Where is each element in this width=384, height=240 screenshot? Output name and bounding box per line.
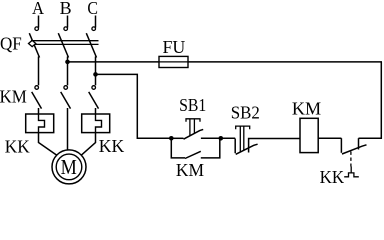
- wire KM to KK heater C: [95, 108, 97, 115]
- contactor KM main terminal B: [64, 86, 68, 90]
- contactor KM aux contact branch left: [171, 138, 185, 158]
- svg-text:KM: KM: [0, 86, 27, 106]
- terminal circle QF pole A: [35, 27, 39, 31]
- contactor KM main terminal C: [92, 86, 96, 90]
- contactor KM aux blade: [185, 151, 201, 158]
- junction dot phase B to FU: [65, 60, 70, 65]
- svg-text:SB1: SB1: [179, 95, 206, 115]
- button SB2 NO blade: [236, 144, 258, 154]
- thermal relay KK heater C box: [82, 114, 110, 133]
- wire phase C to control circuit: [96, 74, 172, 138]
- thermal relay KK heater A box: [26, 114, 54, 133]
- junction dot phase C to control: [93, 72, 98, 77]
- breaker QF blade pole B: [58, 33, 68, 57]
- motor M inner circle: [56, 154, 82, 180]
- thermal relay KK contact dashed actuator link: [350, 152, 352, 167]
- junction dot SB1 right: [219, 136, 224, 141]
- svg-text:C: C: [87, 0, 98, 18]
- thermal relay KK heater A element: [39, 114, 45, 133]
- contactor KM main blade B: [61, 92, 71, 109]
- thermal relay KK actuator element: [344, 167, 359, 177]
- terminal circle QF pole B: [64, 27, 68, 31]
- button SB2 left terminal: [234, 139, 236, 154]
- junction dot SB1 left: [169, 136, 174, 141]
- button SB1 NC blade: [184, 129, 204, 139]
- breaker QF handle diamond: [29, 40, 36, 46]
- contactor KM main blade A: [32, 92, 42, 109]
- svg-text:SB2: SB2: [231, 102, 260, 122]
- svg-text:KM: KM: [292, 99, 321, 119]
- contactor KM main blade C: [89, 92, 99, 109]
- contactor KM main terminal A: [35, 86, 39, 90]
- wire right rail vertical: [359, 62, 382, 138]
- svg-text:B: B: [60, 0, 72, 18]
- wire fuse FU to right rail: [188, 61, 382, 63]
- wire heater A to motor: [39, 133, 58, 156]
- thermal relay KK contact left terminal: [340, 138, 342, 153]
- button SB2 right terminal: [249, 139, 301, 153]
- svg-text:KK: KK: [5, 137, 30, 157]
- motor M outer circle: [52, 150, 86, 184]
- terminal circle QF pole C: [92, 27, 96, 31]
- contactor KM coil: [300, 118, 318, 152]
- svg-text:KK: KK: [99, 136, 125, 156]
- wire KM to motor phase B: [67, 108, 69, 150]
- wire phase C incoming lead: [95, 16, 97, 28]
- button SB2 plunger: [236, 126, 250, 152]
- svg-text:KK: KK: [320, 167, 345, 185]
- thermal relay KK contact right terminal: [358, 138, 360, 149]
- thermal relay KK contact blade: [342, 145, 367, 154]
- button SB1 plunger: [186, 119, 200, 136]
- fuse FU body: [159, 56, 188, 67]
- wire SB1 right: [201, 137, 235, 139]
- breaker QF blade pole A: [29, 33, 39, 57]
- wire phase C QF to KM: [95, 57, 97, 86]
- wire KM to KK heater A: [38, 108, 40, 115]
- wire KM coil to KK contact: [318, 137, 341, 139]
- wire phase A QF to KM: [38, 57, 40, 86]
- svg-text:A: A: [32, 0, 44, 18]
- thermal relay KK heater C element: [96, 114, 102, 133]
- wire phase A incoming lead: [38, 16, 40, 28]
- svg-text:QF: QF: [0, 34, 22, 54]
- svg-text:FU: FU: [163, 37, 186, 57]
- wire phase B incoming lead: [67, 16, 69, 28]
- wire phase B QF to KM: [67, 57, 69, 86]
- wire heater C to motor: [81, 133, 96, 156]
- breaker QF linkage bar: [31, 40, 99, 42]
- wire phase B to fuse FU: [68, 61, 160, 63]
- wire SB1 left: [171, 137, 183, 139]
- breaker QF blade pole C: [86, 33, 96, 57]
- svg-text:KM: KM: [176, 160, 204, 180]
- contactor KM aux branch right: [201, 138, 220, 158]
- svg-text:M: M: [61, 155, 77, 179]
